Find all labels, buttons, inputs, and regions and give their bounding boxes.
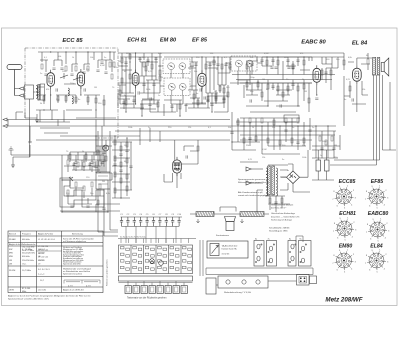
wire channel down left <box>98 126 118 236</box>
record player TA box <box>207 241 248 258</box>
power transformer <box>268 166 271 195</box>
wire mesh ECH81 stage <box>118 53 344 109</box>
wire rail drops left <box>16 112 104 155</box>
svg-text:1M: 1M <box>262 79 265 81</box>
svg-text:MW: MW <box>9 253 13 255</box>
svg-text:MW: MW <box>9 256 13 258</box>
dual caps detector <box>270 67 273 68</box>
svg-text:3n: 3n <box>344 99 346 101</box>
alignment table <box>8 231 103 293</box>
ground lower <box>11 163 15 167</box>
svg-text:TA-Anschluß über: TA-Anschluß über <box>222 245 238 248</box>
svg-text:100k: 100k <box>146 89 150 91</box>
svg-text:Skalenbeleuchtung 7 V 0,3 A: Skalenbeleuchtung 7 V 0,3 A <box>224 291 251 294</box>
svg-text:100k: 100k <box>302 157 306 159</box>
svg-text:L9 C12 C22: L9 C12 C22 <box>38 257 48 259</box>
svg-text:soweit nicht anders angegeben: soweit nicht anders angegeben <box>238 194 269 197</box>
svg-text:3n: 3n <box>124 95 126 97</box>
wire trimmer ground <box>122 225 180 227</box>
wire IF leads <box>158 66 196 112</box>
svg-text:EM 80: EM 80 <box>160 38 177 44</box>
wire bridge leads <box>281 150 310 192</box>
svg-text:8n: 8n <box>78 99 80 101</box>
svg-text:1n: 1n <box>158 95 160 97</box>
svg-text:LW: LW <box>9 260 12 262</box>
svg-text:ZF-AM: ZF-AM <box>9 238 16 241</box>
svg-text:2a 3a 4a 5a 6a 7a: 2a 3a 4a 5a 6a 7a 8a 9a 10a <box>120 237 146 239</box>
wire mesh psu area <box>232 112 340 214</box>
oscillator coil <box>68 88 69 96</box>
svg-text:Abgleich am UKW-Teil: Abgleich am UKW-Teil <box>63 289 84 292</box>
svg-text:50k: 50k <box>228 127 231 129</box>
svg-text:0,5M: 0,5M <box>264 53 269 55</box>
svg-text:beachten — Selen B250 C75: beachten — Selen B250 C75 <box>271 215 300 218</box>
svg-text:EM80: EM80 <box>339 243 353 249</box>
svg-text:25k: 25k <box>246 145 249 147</box>
wire EL84 <box>344 53 372 126</box>
wire mesh if band extra <box>118 93 228 116</box>
svg-text:Osz.: Osz. <box>22 263 27 265</box>
ferrite rod antenna <box>196 212 214 217</box>
svg-text:ECH81: ECH81 <box>339 211 356 217</box>
svg-text:Vorkreis und Oszillator: Vorkreis und Oszillator <box>63 246 82 249</box>
switch wafer 4 <box>299 241 312 267</box>
svg-text:ECC 85: ECC 85 <box>62 38 83 44</box>
ferrite arrows <box>197 219 244 223</box>
wire switch feeds <box>121 239 189 244</box>
svg-text:2n: 2n <box>40 73 42 75</box>
volume potentiometer <box>62 155 73 212</box>
ferrite bracket <box>225 217 236 231</box>
FM tuning cap symbols <box>60 73 81 81</box>
tube V1b ECC85 <box>77 69 84 89</box>
svg-text:KW: KW <box>9 249 12 251</box>
svg-text:UKW: UKW <box>9 290 14 292</box>
loudspeaker <box>381 58 389 76</box>
svg-text:47k: 47k <box>302 145 305 147</box>
svg-text:20n: 20n <box>90 193 93 195</box>
svg-text:3n: 3n <box>282 159 284 161</box>
table extra cell text <box>22 246 84 264</box>
svg-text:47k: 47k <box>300 53 303 55</box>
svg-text:2M: 2M <box>102 181 105 183</box>
svg-text:15k: 15k <box>262 157 265 159</box>
wire main bus rails <box>8 83 340 146</box>
svg-text:10k: 10k <box>272 127 275 129</box>
svg-text:Skalenzeiger justieren: Skalenzeiger justieren <box>63 260 82 263</box>
svg-text:6,8k: 6,8k <box>106 193 110 195</box>
svg-text:EL84: EL84 <box>370 243 383 249</box>
svg-text:Bereich: Bereich <box>9 233 17 236</box>
mains input arrows <box>246 167 263 185</box>
switch wafer 3 <box>288 241 296 267</box>
svg-text:Kontakt Taste TA: Kontakt Taste TA <box>222 248 238 251</box>
svg-text:87,5-100: 87,5-100 <box>22 288 31 290</box>
AM antenna arrows <box>15 87 24 97</box>
wire speaker/OT returns <box>330 75 396 165</box>
component value labels <box>40 53 369 195</box>
svg-text:15k: 15k <box>362 89 365 91</box>
IF transformer Fi I <box>163 59 190 74</box>
diode circle device <box>103 145 109 151</box>
svg-text:Osz. 18,4 MHz: Osz. 18,4 MHz <box>22 247 35 249</box>
svg-text:Röhren von unten gesehen: Röhren von unten gesehen <box>106 259 109 286</box>
tube socket ECH81 <box>333 218 357 242</box>
svg-text:8n: 8n <box>70 177 72 179</box>
svg-text:auf Maximum abgleichen: auf Maximum abgleichen <box>63 241 87 243</box>
svg-text:Tastensatz von der Rückseite g: Tastensatz von der Rückseite gesehen <box>127 297 167 300</box>
svg-text:12k: 12k <box>210 53 213 55</box>
tube socket ECC85 <box>332 186 356 210</box>
switch unit contacts <box>120 247 191 271</box>
svg-text:an Ratiodetektor anschließen: an Ratiodetektor anschließen <box>63 270 91 273</box>
svg-text:Abgleich-Punkte: Abgleich-Punkte <box>38 233 54 236</box>
svg-text:Vorkr. 15 MHz: Vorkr. 15 MHz <box>22 249 34 252</box>
voltage dropper box <box>284 115 299 122</box>
svg-text:10k: 10k <box>228 67 231 69</box>
ground AM coil <box>35 118 39 122</box>
svg-text:50k: 50k <box>194 71 197 73</box>
wire mesh center mid <box>60 128 160 211</box>
svg-text:EABC80: EABC80 <box>368 211 389 217</box>
svg-text:ZF-FM: ZF-FM <box>9 270 16 272</box>
svg-text:bei 600 kHz nachziehen: bei 600 kHz nachziehen <box>63 251 83 253</box>
svg-text:LW: LW <box>9 263 12 265</box>
svg-text:Gleichrichter-Einbaulage: Gleichrichter-Einbaulage <box>271 212 296 215</box>
svg-text:47k: 47k <box>46 89 49 91</box>
svg-text:1k: 1k <box>252 127 254 129</box>
wire mains runs <box>216 236 303 285</box>
svg-text:Stand August 1956: Stand August 1956 <box>269 230 288 233</box>
wire mesh FM box <box>36 52 116 133</box>
AM input coil unit <box>25 85 34 99</box>
svg-text:5n: 5n <box>196 93 198 95</box>
svg-text:0,5M: 0,5M <box>262 149 267 151</box>
table nested diagram <box>64 280 100 284</box>
EM80 interior shading <box>174 163 180 169</box>
svg-text:bei Netz 220 V~: bei Netz 220 V~ <box>271 207 287 210</box>
svg-text:Symmetrie beachten: Symmetrie beachten <box>63 273 83 276</box>
svg-text:ECH 81: ECH 81 <box>127 38 147 44</box>
svg-text:50k: 50k <box>58 56 61 58</box>
svg-text:5n: 5n <box>104 57 106 59</box>
svg-text:Sicherung 0,5 A träge: Sicherung 0,5 A träge <box>271 218 293 221</box>
switch wafer 2 <box>267 241 277 267</box>
table text <box>9 233 94 293</box>
connector box left of switch unit <box>96 172 110 189</box>
AM antenna terminal lower <box>9 147 14 155</box>
wire mesh EF85 stage <box>164 57 344 112</box>
tube V1a ECC85 <box>47 70 54 90</box>
switch unit outline <box>119 245 193 274</box>
tube socket EL84 <box>365 250 389 274</box>
svg-text:150-350 kHz: 150-350 kHz <box>22 260 34 262</box>
svg-text:1n: 1n <box>320 155 322 157</box>
svg-text:Schwundregelung prüfen: Schwundregelung prüfen <box>63 253 84 256</box>
svg-text:5k: 5k <box>82 151 84 153</box>
alignment trimmer row <box>121 216 183 218</box>
trimmers <box>120 214 182 226</box>
svg-text:EF85: EF85 <box>371 179 384 185</box>
svg-text:1M: 1M <box>334 145 337 147</box>
svg-text:L8 C21: L8 C21 <box>38 253 44 255</box>
svg-text:Fi 1 Fi 2 Fi 3: Fi 1 Fi 2 Fi 3 <box>38 269 50 271</box>
svg-text:L10 C30: L10 C30 <box>38 290 47 292</box>
svg-text:10,7 MHz: 10,7 MHz <box>22 270 31 272</box>
key buttons <box>125 286 187 294</box>
FM tuner boundary <box>25 48 118 138</box>
svg-text:2M: 2M <box>304 91 307 93</box>
svg-text:25k: 25k <box>86 69 89 71</box>
tube V3 EF85 <box>198 70 206 89</box>
wire mesh tone network <box>30 155 112 212</box>
mains connector <box>297 275 317 286</box>
svg-text:15k: 15k <box>160 77 163 79</box>
tube socket EM80 <box>332 250 356 274</box>
svg-text:0,5M: 0,5M <box>100 65 105 67</box>
svg-text:460 kHz: 460 kHz <box>22 239 30 241</box>
svg-text:1M: 1M <box>94 87 97 89</box>
tube V2 ECH81 <box>132 70 139 89</box>
svg-text:100k: 100k <box>128 127 132 129</box>
tube socket EF85 <box>365 186 389 210</box>
tube V4 EABC80 <box>313 65 321 85</box>
svg-text:31 32 33: 31 32 33 <box>222 254 231 256</box>
tube V6 EM80 <box>173 157 182 176</box>
switch lamps <box>150 259 155 264</box>
wire transformer secondary <box>257 170 288 214</box>
svg-text:L7 C10 C20: L7 C10 C20 <box>38 246 48 248</box>
tube socket EABC80 <box>366 219 390 243</box>
svg-text:MHz: MHz <box>22 291 26 293</box>
svg-text:600 kHz: 600 kHz <box>22 256 30 258</box>
svg-text:0,7 V: 0,7 V <box>68 285 73 287</box>
svg-text:Bandbreite kontrollieren: Bandbreite kontrollieren <box>63 257 83 260</box>
svg-text:EF 85: EF 85 <box>192 38 208 44</box>
wire EM80 leads <box>173 140 199 188</box>
svg-text:L9 C22: L9 C22 <box>38 260 44 262</box>
wire trimmer-to-switch drops <box>118 226 196 243</box>
svg-text:Schaltbild-Nr. 208/56: Schaltbild-Nr. 208/56 <box>269 227 290 230</box>
svg-text:1n: 1n <box>148 127 150 129</box>
svg-text:o--o--o: o--o--o <box>38 274 45 276</box>
svg-text:EL 84: EL 84 <box>352 41 368 47</box>
svg-text:Metz 208/WF: Metz 208/WF <box>325 297 362 304</box>
svg-text:Ferritantenne: Ferritantenne <box>216 234 230 237</box>
IF transformer Fi II <box>164 78 190 96</box>
svg-text:1k: 1k <box>216 69 218 71</box>
svg-text:20n: 20n <box>336 59 339 61</box>
wire wafer bus <box>200 240 313 276</box>
svg-text:20n: 20n <box>142 57 145 59</box>
output transformer <box>373 58 376 76</box>
svg-text:Abgleich nur durch den Fachman: Abgleich nur durch den Fachmann mit geei… <box>8 294 91 297</box>
svg-text:25k: 25k <box>250 57 253 59</box>
filter capacitors <box>316 160 321 171</box>
svg-text:Frequenz: Frequenz <box>22 233 31 236</box>
wire mesh EABC80 stage <box>232 57 338 112</box>
svg-text:ECC85: ECC85 <box>339 179 356 185</box>
svg-text:10k: 10k <box>90 57 93 59</box>
svg-text:5k: 5k <box>40 103 42 105</box>
switch wafer 1 <box>254 241 264 267</box>
svg-text:2n: 2n <box>214 91 216 93</box>
svg-text:12k: 12k <box>188 127 191 129</box>
svg-text:Alle Kondensatoren in pF,: Alle Kondensatoren in pF, <box>238 191 263 194</box>
chassis stepped outline <box>60 178 104 207</box>
AM coil core <box>38 85 40 101</box>
FM dipole antenna <box>7 65 22 96</box>
tube V5 EL84 <box>353 65 362 84</box>
svg-text:6,8k: 6,8k <box>348 57 352 59</box>
svg-text:L8 C11 C21: L8 C11 C21 <box>38 249 48 251</box>
svg-text:Spannungswerte gemessen mit: Spannungswerte gemessen mit <box>238 178 269 181</box>
rectifier bridge <box>287 171 300 184</box>
svg-text:Spezialschlüssel verstellen. A: Spezialschlüssel verstellen. Alle Werte … <box>8 297 50 300</box>
svg-text:L1 L2 L3 L4 L5 L6: L1 L2 L3 L4 L5 L6 <box>38 239 56 241</box>
svg-text:510-1620 kHz: 510-1620 kHz <box>22 253 35 255</box>
svg-text:0,7 V: 0,7 V <box>86 285 91 287</box>
svg-text:5k: 5k <box>302 79 304 81</box>
wire ratio det leads <box>226 63 262 98</box>
svg-text:5n: 5n <box>292 127 294 129</box>
chassis bracket with dial lamps <box>206 276 268 294</box>
svg-text:1k: 1k <box>72 57 74 59</box>
keys mounting bar <box>119 276 193 281</box>
svg-text:2M: 2M <box>118 61 121 63</box>
capacitor on antenna line <box>28 142 31 143</box>
svg-text:EABC 80: EABC 80 <box>301 40 326 46</box>
svg-text:6,8k: 6,8k <box>158 53 162 55</box>
svg-text:Bemerkung: Bemerkung <box>72 233 83 236</box>
svg-text:8n: 8n <box>266 89 268 91</box>
terminal arrows left edge <box>3 118 8 128</box>
IF transformer ratio detector <box>231 56 257 71</box>
svg-text:2n: 2n <box>312 127 314 129</box>
